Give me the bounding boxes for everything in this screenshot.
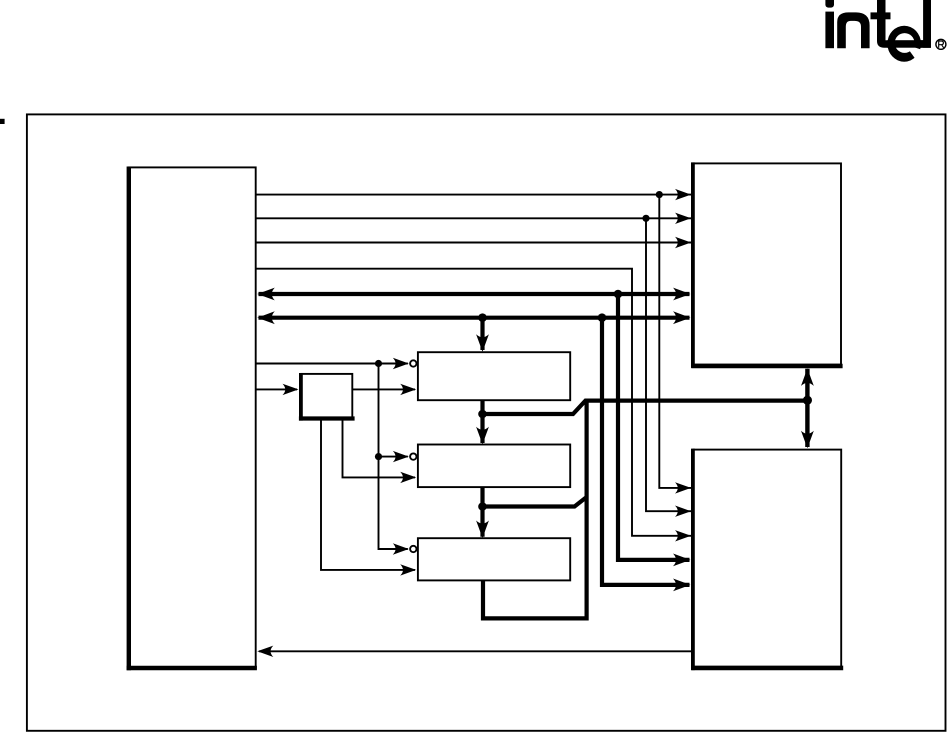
thick bus branch from register 2 xyxy=(483,497,587,507)
thick bus from register 1 to right junction xyxy=(483,396,813,619)
chain arrow into register block 1 xyxy=(476,318,489,352)
wire W6 thick bidirectional xyxy=(257,311,690,324)
wire into small control box xyxy=(256,384,299,395)
wire select to register 1 with inverter bubble xyxy=(256,358,417,369)
wire W2 xyxy=(256,213,691,224)
wire select vertical with branches to registers 2 and 3 xyxy=(375,364,417,555)
wire V1 drop from W1 xyxy=(659,195,691,494)
wire small box drop to register 3 xyxy=(321,419,416,576)
chain arrow register 2 to 3 xyxy=(476,487,489,538)
wire V6 thick drop from W6 xyxy=(602,318,691,592)
register block 1 xyxy=(418,352,570,400)
registered trademark symbol xyxy=(936,39,946,49)
wire W1 xyxy=(256,189,691,200)
vertical double arrow between right boxes xyxy=(801,368,814,448)
chain arrow register 1 to 2 xyxy=(476,400,489,444)
block: bus interface (left tall box) xyxy=(127,167,257,671)
register block 2 xyxy=(418,445,570,488)
wire W5 thick bidirectional xyxy=(257,288,690,301)
wire small box to register 1 xyxy=(352,384,416,395)
block: small control box xyxy=(299,373,355,421)
wire V5 thick drop from W5 xyxy=(618,294,691,566)
wire W3 xyxy=(256,237,691,248)
wire bottom return line xyxy=(257,646,693,657)
wire W4 xyxy=(256,269,691,542)
wire small box drop to register 2 xyxy=(343,419,417,484)
wire V2 drop from W2 xyxy=(646,218,691,517)
block: upper-right box xyxy=(691,162,842,368)
register block 3 xyxy=(418,538,570,580)
intel logo xyxy=(825,0,931,63)
block: lower-right box xyxy=(691,449,843,670)
